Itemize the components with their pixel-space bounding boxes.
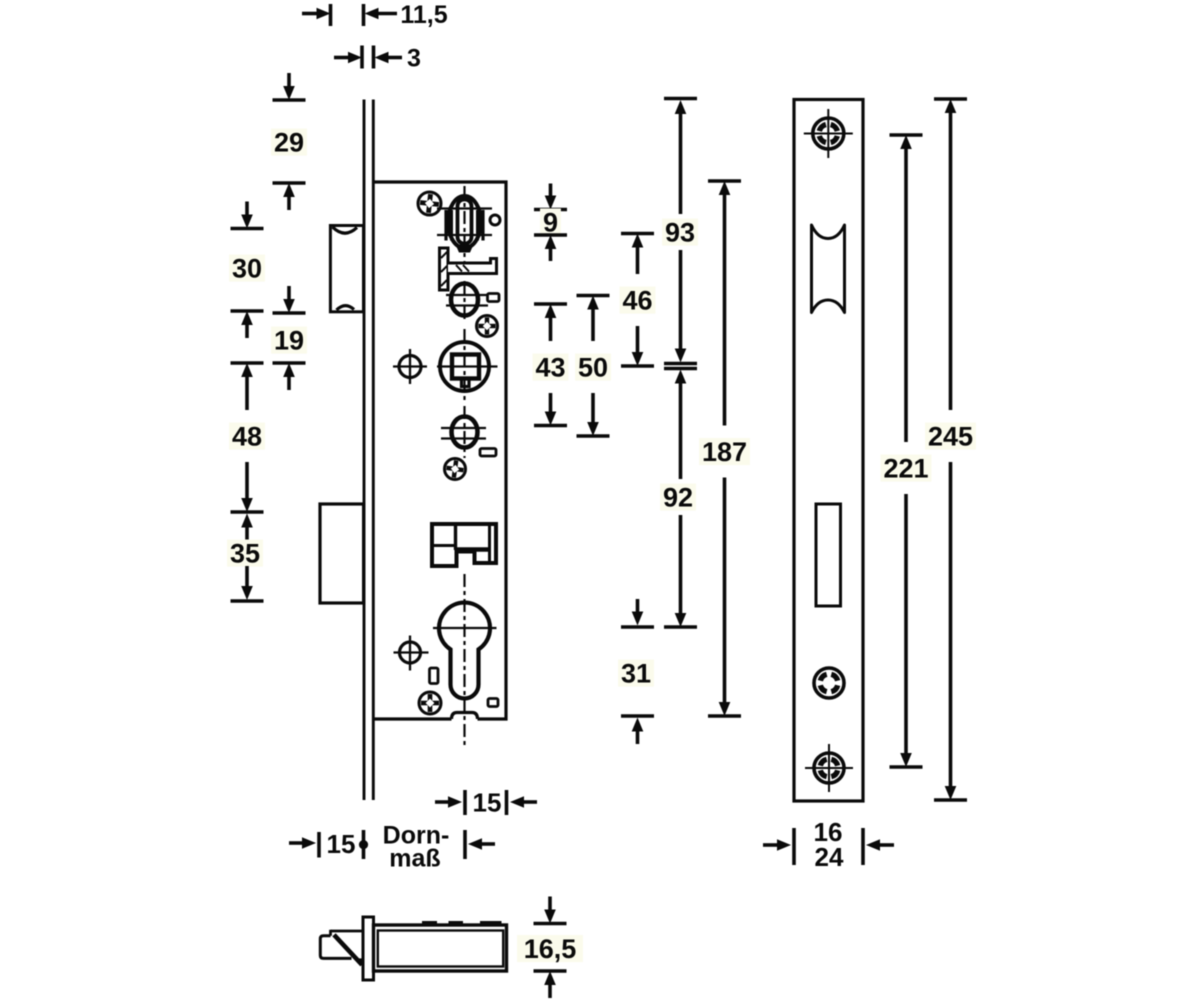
dimension 48 (follower to deadbolt) [229, 363, 265, 512]
section view: latch bolt with bevel [320, 930, 363, 965]
small slot above bottom-left screw [430, 668, 439, 684]
faceplate bottom screw hole [805, 744, 853, 792]
dimension 30 (latch bolt height) [229, 202, 265, 339]
latch bolt (side view) [330, 226, 363, 312]
svg-text:30: 30 [232, 254, 262, 284]
section view: top lugs [422, 921, 502, 926]
dimension 19 (latch to follower) [271, 286, 307, 390]
svg-text:31: 31 [621, 659, 651, 689]
svg-text:maß: maß [389, 845, 440, 873]
small slot right of lower oval hub [480, 449, 496, 457]
oval hub (lower spindle opening) [441, 417, 486, 448]
dimension 11,5 (latch projection) [302, 1, 448, 29]
dimension 9 [534, 184, 567, 262]
faceplate deadbolt opening [816, 504, 841, 606]
lock case outline [374, 182, 507, 719]
square follower (handle hub) [437, 342, 498, 391]
faceplate side view (vertical bar) [364, 100, 373, 801]
faceplate front view outline [794, 100, 863, 802]
svg-text:221: 221 [883, 454, 928, 484]
oval hub (upper spindle opening) [446, 284, 488, 316]
deadbolt follower mechanism [432, 524, 496, 566]
svg-text:16,5: 16,5 [524, 934, 577, 964]
dimension 3 (faceplate thickness) [334, 45, 421, 73]
svg-text:187: 187 [702, 437, 747, 467]
dimension 221 [881, 135, 932, 767]
deadbolt (side view) [320, 504, 364, 603]
case screw top-left [418, 192, 441, 215]
svg-text:92: 92 [663, 483, 693, 513]
svg-text:35: 35 [230, 539, 260, 569]
Dornmass arrow at centerline [465, 830, 495, 859]
fixing hole left of square follower [393, 349, 427, 384]
dimension 46 [620, 234, 656, 367]
T-shaped lever (latch spring arm) [440, 248, 497, 290]
svg-text:93: 93 [665, 218, 695, 248]
latch follower assembly [437, 196, 492, 253]
svg-text:43: 43 [535, 353, 565, 383]
case screw mid-right [477, 316, 498, 337]
vertical centerline of lock case [463, 186, 465, 747]
dimension 50 [575, 296, 611, 437]
dimension 15 (deadbolt throw) [289, 829, 368, 859]
svg-text:48: 48 [232, 422, 262, 452]
dimension 92 [660, 369, 697, 628]
faceplate top screw hole [804, 109, 853, 158]
svg-text:29: 29 [274, 128, 304, 158]
svg-text:245: 245 [928, 422, 973, 452]
dimension 35 (deadbolt height) [227, 514, 263, 602]
small slot right of cylinder [488, 699, 498, 707]
svg-text:15: 15 [327, 829, 356, 859]
Dornmass (backset) label [383, 822, 450, 873]
dimension 31 [618, 599, 654, 744]
euro profile cylinder hole [433, 603, 497, 699]
dimension 16 over 24 (faceplate width) [763, 817, 894, 872]
dimension 16,5 (case thickness) [517, 897, 583, 999]
case screw mid-low [445, 459, 466, 480]
small rectangular slot right of oval hub [488, 294, 500, 302]
faceplate latch opening [812, 225, 845, 313]
faceplate middle hole [814, 668, 844, 698]
fixing hole left of cylinder [394, 636, 429, 671]
dimension 43 [533, 304, 569, 426]
dimension 187 [699, 181, 750, 716]
section view: case body [374, 925, 507, 971]
section view: faceplate bar [363, 917, 374, 980]
svg-text:11,5: 11,5 [400, 1, 447, 29]
svg-text:50: 50 [578, 353, 608, 383]
case screw bottom-left [419, 692, 441, 714]
lock case bottom notch [452, 713, 478, 720]
dimension 29 (faceplate top to case top) [271, 73, 307, 210]
small pin circle right of latch follower [490, 215, 500, 225]
svg-text:46: 46 [622, 286, 652, 316]
svg-text:19: 19 [274, 326, 304, 356]
svg-text:3: 3 [407, 45, 421, 73]
dimension 15 (case half width) [435, 788, 537, 818]
dimension 245 [925, 99, 976, 800]
svg-text:15: 15 [473, 788, 502, 818]
dimension 93 [662, 99, 698, 364]
svg-text:24: 24 [815, 842, 844, 872]
